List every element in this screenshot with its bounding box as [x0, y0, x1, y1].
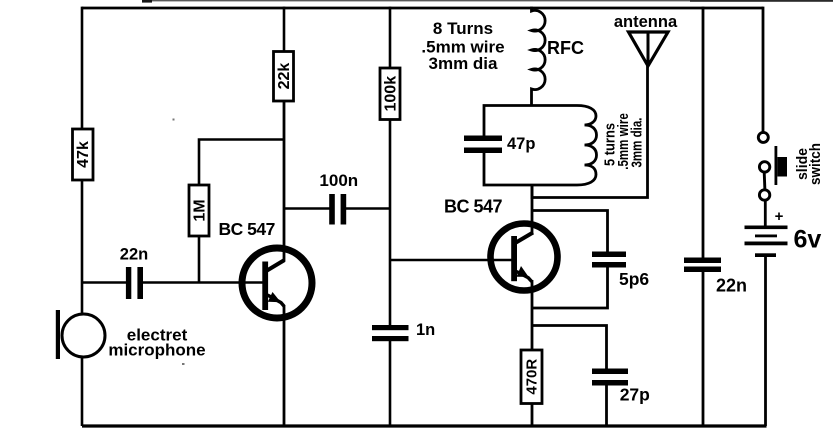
- svg-text:100k: 100k: [383, 76, 400, 112]
- capacitor C7 22n (output side): [684, 258, 721, 273]
- wire 470R to ground rail: [531, 404, 534, 427]
- transistor Q1 BC547: [242, 248, 312, 318]
- svg-text:switch: switch: [807, 143, 824, 185]
- svg-text:antenna: antenna: [614, 13, 678, 31]
- svg-text:47p: 47p: [507, 135, 535, 153]
- wire mic node to C1: [82, 281, 126, 284]
- wire 1M bottom to base wire: [198, 236, 201, 283]
- bottom ground rail: [82, 424, 767, 427]
- svg-text:RFC: RFC: [547, 38, 584, 58]
- svg-text:8 Turns: 8 Turns: [433, 19, 493, 38]
- svg-text:6v: 6v: [794, 226, 822, 254]
- label 8 Turns / .5mm wire / 3mm dia: [421, 19, 504, 73]
- svg-text:47k: 47k: [75, 141, 92, 168]
- transistor Q2 BC547: [491, 224, 558, 291]
- wire C2 to 100k line: [346, 207, 390, 210]
- capacitor C4 5p6: [592, 252, 626, 268]
- svg-text:1n: 1n: [416, 321, 435, 339]
- resistor R4 100k: [380, 68, 400, 120]
- capacitor C1 22n: [126, 267, 143, 299]
- battery B1 6v: [745, 226, 788, 258]
- wire collector to C4 5p6: [532, 211, 608, 253]
- capacitor C5 27p: [592, 369, 628, 386]
- svg-text:1M: 1M: [192, 199, 209, 221]
- wire rail to C7 22n: [702, 7, 705, 258]
- svg-text:3mm dia.: 3mm dia.: [629, 118, 646, 168]
- wire C4 bottom to emitter node: [532, 268, 608, 309]
- label electret microphone: [108, 326, 205, 360]
- scan artifact line at top edge: [142, 0, 833, 3]
- svg-text:3mm dia: 3mm dia: [429, 54, 499, 73]
- wire rail to 22k: [283, 7, 286, 52]
- wire switch to battery: [764, 200, 767, 226]
- svg-text:microphone: microphone: [108, 341, 205, 360]
- inductor L1 RFC: [532, 7, 546, 106]
- resistor R2 1M: [189, 185, 209, 236]
- svg-text:100n: 100n: [319, 171, 358, 190]
- svg-text:5p6: 5p6: [619, 269, 649, 289]
- antenna: [629, 32, 669, 66]
- wire C5 to ground rail: [605, 385, 608, 426]
- svg-text:22k: 22k: [276, 63, 293, 90]
- wire battery to ground rail: [764, 257, 767, 426]
- label slide switch (rotated): [794, 143, 824, 185]
- top supply rail: [82, 7, 763, 10]
- wire microphone to ground rail: [81, 357, 84, 426]
- wire C3 to ground rail: [389, 341, 392, 426]
- left rail wire (top section): [81, 7, 84, 129]
- wire 1M top to collector node: [199, 140, 284, 186]
- capacitor C3 1n: [372, 325, 409, 341]
- wire collector to antenna lead: [532, 64, 648, 198]
- wire rail to 100k: [389, 7, 392, 68]
- wire Q2 emitter down: [531, 280, 534, 350]
- svg-text:BC 547: BC 547: [444, 197, 503, 217]
- wire 22k to Q1 collector: [283, 101, 286, 261]
- capacitor C6 47p: [464, 136, 502, 154]
- wire base of Q2: [390, 259, 513, 262]
- wire 100k down through junctions to C3: [389, 120, 392, 326]
- wire C1 to Q1 base: [143, 281, 263, 284]
- tank circuit: inductor L2 coil: [484, 106, 597, 186]
- svg-text:BC 547: BC 547: [219, 219, 275, 239]
- electret microphone MIC1: [56, 310, 105, 359]
- resistor R5 470R: [521, 350, 542, 404]
- wire emitter node to C5 27p: [532, 326, 607, 370]
- slide switch SW1: [758, 132, 787, 200]
- capacitor C2 100n: [329, 194, 346, 225]
- svg-text:27p: 27p: [620, 385, 650, 405]
- wire rail to switch: [762, 7, 765, 132]
- wire Q1 emitter to ground rail: [283, 305, 286, 426]
- wire C7 to ground rail: [702, 272, 705, 426]
- speck artifacts: [173, 119, 175, 121]
- wire tank bottom to collector node: [531, 185, 534, 199]
- svg-text:470R: 470R: [524, 359, 541, 395]
- svg-text:+: +: [775, 208, 784, 225]
- svg-text:22n: 22n: [716, 276, 747, 296]
- wire 47k to microphone: [81, 180, 84, 313]
- label 5 turns / .5mm wire / 3mm dia. (rotated): [602, 113, 646, 170]
- wire Q2 collector up to tank: [531, 185, 534, 234]
- svg-text:22n: 22n: [120, 246, 148, 264]
- resistor R1 47k: [73, 129, 94, 180]
- wire collector node to C2: [284, 207, 330, 210]
- resistor R3 22k: [274, 52, 294, 102]
